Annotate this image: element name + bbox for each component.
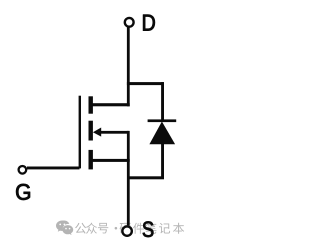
source vertical wire (127, 131, 130, 226)
watermark wechat icon small bubble (62, 225, 73, 235)
watermark dot (115, 227, 118, 230)
watermark text 众 (86, 223, 97, 234)
source-to-diode branch wire (127, 176, 164, 179)
mosfet Q1 drain channel bar (89, 96, 93, 113)
watermark text 硬 (120, 223, 131, 234)
body stub wire (99, 131, 129, 134)
terminal circle G (19, 166, 27, 174)
drain stub wire (91, 103, 130, 106)
mosfet Q1 gate plate (79, 96, 81, 169)
watermark wechat icon big bubble (56, 221, 69, 232)
diode D1 anode triangle (149, 122, 175, 145)
label G (16, 184, 30, 200)
gate wire (27, 167, 80, 170)
watermark text 笔 (146, 223, 157, 234)
diode D1 anode wire (161, 143, 164, 179)
watermark text 记 (159, 223, 170, 234)
source stub wire (91, 159, 130, 162)
terminal circle D (125, 18, 134, 27)
watermark icon eyes (59, 224, 70, 230)
label D (143, 15, 155, 31)
mosfet Q1 body channel bar (89, 121, 93, 141)
terminal circle S (122, 226, 131, 235)
drain-to-diode branch wire (127, 82, 164, 85)
label S (143, 221, 154, 237)
mosfet Q1 source channel bar (89, 150, 93, 170)
drain wire (127, 27, 130, 107)
watermark text 本 (173, 223, 184, 234)
watermark text 件 (133, 223, 144, 234)
watermark text 号 (98, 223, 108, 234)
mosfet Q1 body arrow (93, 128, 101, 137)
diode D1 cathode bar (148, 119, 177, 122)
diode D1 cathode wire (161, 82, 164, 121)
watermark text 公 (75, 223, 86, 234)
